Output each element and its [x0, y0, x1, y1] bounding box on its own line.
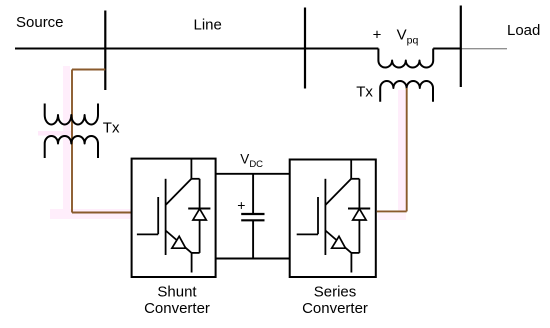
wire: shunt converter input (brown, horizontal)	[72, 212, 132, 214]
wire: series converter output (brown, horizontal)	[377, 210, 407, 212]
svg-text:Series: Series	[314, 284, 357, 301]
svg-text:Line: Line	[194, 16, 222, 33]
transformer T1 primary winding	[45, 104, 98, 125]
transformer T1 secondary winding	[45, 136, 98, 158]
IGBT Q1 (shunt converter)	[137, 159, 192, 273]
diode D1 (shunt converter freewheel)	[188, 179, 210, 253]
IGBT Q2 (series converter)	[297, 160, 352, 273]
bus bar: load bus	[460, 6, 462, 88]
wire: load feeder (grey)	[461, 48, 507, 50]
converter box U1 (shunt converter)	[132, 159, 216, 277]
svg-text:Tx: Tx	[103, 119, 120, 136]
svg-text:Source: Source	[16, 14, 64, 31]
transformer T2 primary winding (series element in line)	[378, 49, 433, 68]
transformer T2 secondary winding	[380, 81, 433, 102]
wire: shunt tap vertical through transformer T1 (brown)	[71, 70, 73, 213]
svg-text:Load: Load	[507, 22, 540, 39]
svg-text:+: +	[373, 27, 382, 44]
bus bar: source bus	[104, 11, 106, 91]
wire: DC bus negative rail	[216, 258, 290, 260]
svg-text:+: +	[237, 197, 245, 213]
svg-text:Tx: Tx	[356, 84, 373, 101]
bus bar: line-side bus	[304, 8, 306, 89]
svg-text:Converter: Converter	[302, 300, 368, 317]
capacitor C1 (DC link)	[241, 174, 264, 259]
wire: main transmission line (source to Vpq dip)	[15, 48, 378, 50]
diode D2 (series converter freewheel)	[348, 179, 370, 253]
wire: line segment between Vpq winding and load bus	[433, 48, 461, 50]
svg-text:Shunt: Shunt	[157, 284, 197, 301]
svg-text:Converter: Converter	[144, 300, 210, 317]
converter box U2 (series converter)	[290, 160, 376, 278]
wire: DC bus positive rail	[216, 173, 290, 175]
wire: shunt tap from source bus (brown, horizontal)	[72, 69, 105, 71]
wire: series injection vertical (brown)	[406, 88, 408, 211]
